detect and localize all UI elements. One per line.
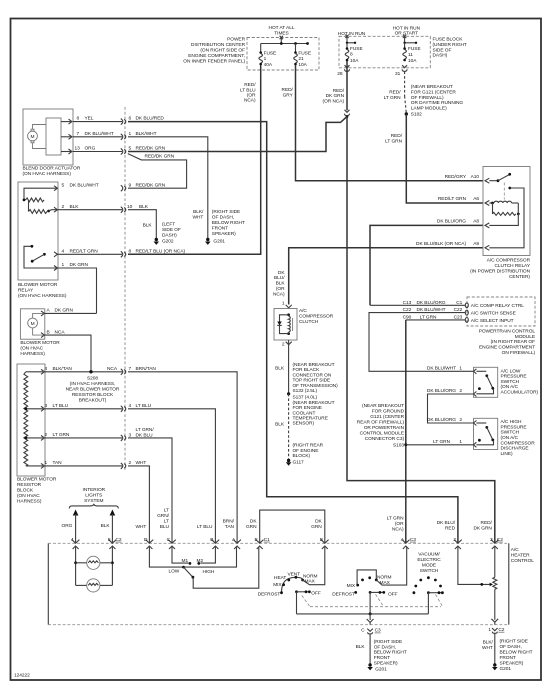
svg-text:LAMP MODULE): LAMP MODULE) — [411, 106, 447, 112]
svg-text:1: 1 — [264, 56, 267, 62]
svg-text:NORM: NORM — [377, 575, 392, 581]
svg-text:LT BLU: LT BLU — [240, 87, 256, 93]
svg-text:ORG: ORG — [62, 523, 73, 529]
svg-text:CLUTCH: CLUTCH — [299, 319, 319, 325]
svg-text:LT: LT — [164, 519, 169, 525]
svg-text:M: M — [31, 321, 35, 327]
svg-text:SWITCH: SWITCH — [420, 568, 439, 574]
svg-text:RED/: RED/ — [333, 88, 345, 94]
svg-text:LT GRN/: LT GRN/ — [136, 427, 155, 433]
svg-text:3: 3 — [129, 432, 132, 438]
svg-text:BLK: BLK — [356, 644, 366, 650]
svg-text:BELOW RIGHT: BELOW RIGHT — [212, 220, 245, 226]
svg-text:BLK: BLK — [275, 365, 285, 371]
svg-text:2: 2 — [459, 417, 462, 423]
svg-text:DEFROST: DEFROST — [332, 592, 355, 598]
svg-text:BLK/: BLK/ — [483, 640, 494, 646]
svg-text:COOLANT: COOLANT — [293, 410, 316, 416]
svg-text:TIMES: TIMES — [274, 30, 288, 36]
svg-text:DEFROST: DEFROST — [258, 592, 281, 598]
svg-text:BLOCK: BLOCK — [17, 488, 34, 494]
svg-text:9: 9 — [129, 182, 132, 188]
svg-text:2: 2 — [282, 341, 285, 347]
svg-text:ACCUMULATOR): ACCUMULATOR) — [501, 389, 539, 395]
svg-text:A/C HIGH: A/C HIGH — [501, 419, 523, 425]
svg-text:RED/LT GRN: RED/LT GRN — [70, 248, 99, 254]
svg-text:OF ENGINE: OF ENGINE — [293, 448, 319, 454]
svg-text:5: 5 — [129, 146, 132, 152]
svg-text:DK: DK — [250, 519, 257, 525]
svg-text:1: 1 — [488, 627, 491, 633]
svg-text:RED/: RED/ — [282, 87, 294, 93]
svg-text:FRONT: FRONT — [374, 655, 390, 661]
svg-text:DK GRN: DK GRN — [70, 262, 89, 268]
svg-text:BLOWER MOTOR: BLOWER MOTOR — [18, 282, 58, 288]
svg-text:OR START: OR START — [395, 30, 419, 36]
svg-text:LT BLU: LT BLU — [197, 524, 213, 530]
svg-text:MAX: MAX — [380, 580, 391, 586]
svg-text:1: 1 — [129, 131, 132, 137]
svg-text:SWITCH: SWITCH — [501, 430, 520, 436]
svg-text:WHT: WHT — [482, 645, 493, 651]
svg-text:(ON A/C: (ON A/C — [501, 384, 519, 390]
svg-text:5: 5 — [62, 182, 65, 188]
svg-text:4: 4 — [129, 403, 132, 409]
svg-text:TAN: TAN — [53, 460, 63, 466]
svg-text:ELECTRIC: ELECTRIC — [417, 557, 441, 563]
svg-text:NCA): NCA) — [244, 98, 256, 104]
svg-text:LT BLU: LT BLU — [136, 403, 152, 409]
svg-text:(NEAR BREAKOUT: (NEAR BREAKOUT — [411, 84, 453, 90]
svg-text:GRN: GRN — [246, 524, 257, 530]
svg-text:OF FIREWALL): OF FIREWALL) — [411, 95, 444, 101]
svg-text:ON FIREWALL): ON FIREWALL) — [502, 350, 536, 356]
svg-text:LINE): LINE) — [501, 451, 513, 457]
svg-text:DK BLU/WHT: DK BLU/WHT — [427, 366, 456, 372]
svg-text:BRN/: BRN/ — [223, 519, 235, 525]
svg-text:DK BLU/ORG: DK BLU/ORG — [427, 388, 456, 394]
svg-text:BLK: BLK — [275, 422, 285, 428]
svg-text:3: 3 — [45, 403, 48, 409]
svg-text:C90: C90 — [403, 314, 412, 320]
svg-text:G117: G117 — [293, 459, 305, 465]
svg-text:LIGHTS: LIGHTS — [85, 493, 102, 499]
svg-text:BELOW RIGHT: BELOW RIGHT — [500, 650, 533, 656]
svg-text:1: 1 — [45, 460, 48, 466]
svg-text:40A: 40A — [264, 62, 273, 68]
svg-text:DK GRN: DK GRN — [326, 93, 345, 99]
svg-text:COMPRESSOR: COMPRESSOR — [501, 440, 536, 446]
svg-text:BLK: BLK — [143, 222, 153, 228]
svg-text:11: 11 — [408, 52, 413, 58]
svg-text:(ON HVAC HARNESS): (ON HVAC HARNESS) — [18, 293, 67, 299]
svg-text:LOW: LOW — [169, 568, 180, 574]
svg-text:DK BLU/: DK BLU/ — [437, 520, 456, 526]
svg-text:CONTROL: CONTROL — [511, 558, 534, 564]
svg-text:1: 1 — [62, 262, 65, 268]
svg-text:FRONT: FRONT — [212, 226, 228, 232]
svg-text:1: 1 — [459, 439, 462, 445]
svg-text:SIDE OF: SIDE OF — [162, 227, 181, 233]
svg-text:BLK: BLK — [70, 204, 80, 210]
svg-text:OF DASH,: OF DASH, — [212, 215, 234, 221]
svg-text:G201: G201 — [500, 666, 512, 672]
svg-text:(RIGHT SIDE: (RIGHT SIDE — [374, 639, 402, 645]
svg-text:OF TRANSMISSION): OF TRANSMISSION) — [293, 383, 339, 389]
svg-text:DASH): DASH) — [433, 53, 448, 59]
svg-text:OF DASH,: OF DASH, — [500, 644, 522, 650]
svg-text:GRN/: GRN/ — [157, 513, 170, 519]
svg-text:BREAKOUT): BREAKOUT) — [79, 398, 107, 404]
svg-text:10A: 10A — [298, 62, 307, 68]
svg-text:A9: A9 — [473, 241, 479, 247]
svg-text:(OR NCA): (OR NCA) — [323, 99, 345, 105]
svg-text:DK: DK — [315, 519, 322, 525]
svg-text:DK BLU/ORG: DK BLU/ORG — [437, 219, 466, 225]
svg-text:RED/DK GRN: RED/DK GRN — [136, 182, 166, 188]
svg-text:SIDE OF: SIDE OF — [433, 47, 452, 53]
svg-text:FUSE BLOCK: FUSE BLOCK — [433, 37, 464, 43]
svg-text:A/C SELECT INPUT: A/C SELECT INPUT — [471, 318, 514, 324]
svg-text:S102: S102 — [411, 112, 422, 118]
svg-text:VENT: VENT — [288, 571, 301, 577]
svg-text:G121 (CENTER: G121 (CENTER — [370, 414, 404, 420]
svg-text:WHT: WHT — [136, 524, 147, 530]
svg-text:CONTROL MODULE: CONTROL MODULE — [360, 431, 404, 437]
svg-text:C23: C23 — [454, 314, 463, 320]
svg-text:SPEAKER): SPEAKER) — [374, 661, 398, 667]
svg-text:S208: S208 — [87, 376, 98, 382]
svg-text:10: 10 — [127, 204, 133, 210]
svg-text:LT GRN: LT GRN — [384, 95, 401, 101]
svg-text:SPEAKER): SPEAKER) — [212, 231, 236, 237]
svg-text:BLOWER MOTOR: BLOWER MOTOR — [17, 477, 57, 483]
svg-text:COMPRESSOR: COMPRESSOR — [299, 313, 334, 319]
svg-text:A/C: A/C — [299, 308, 307, 314]
svg-text:RED/DK GRN: RED/DK GRN — [136, 146, 166, 152]
svg-text:BLU: BLU — [160, 524, 170, 530]
svg-text:MIX: MIX — [347, 583, 356, 589]
svg-text:FOR GROUND: FOR GROUND — [372, 409, 405, 415]
svg-text:(OR: (OR — [276, 286, 285, 292]
svg-text:(ON HVAC: (ON HVAC — [17, 493, 40, 499]
svg-text:BLK/: BLK/ — [193, 209, 204, 215]
svg-text:OFF: OFF — [311, 591, 321, 597]
svg-text:BLK/WHT: BLK/WHT — [136, 131, 157, 137]
svg-text:(IN HVAC HARNESS,: (IN HVAC HARNESS, — [70, 381, 116, 387]
svg-text:13: 13 — [75, 146, 81, 152]
svg-text:(NEAR BREAKOUT: (NEAR BREAKOUT — [293, 362, 335, 368]
svg-text:S103: S103 — [393, 443, 404, 449]
svg-text:FRONT: FRONT — [500, 655, 516, 661]
svg-text:FUSE: FUSE — [298, 51, 311, 57]
svg-text:8: 8 — [350, 52, 353, 58]
svg-text:C22: C22 — [403, 307, 412, 313]
svg-text:MIX: MIX — [273, 582, 282, 588]
svg-text:HARNESS): HARNESS) — [17, 499, 42, 505]
svg-text:C2: C2 — [498, 627, 504, 633]
svg-text:ENGINE COMPARTMENT: ENGINE COMPARTMENT — [479, 345, 535, 351]
svg-text:RED/LT GRN: RED/LT GRN — [438, 196, 467, 202]
svg-text:(ON RIGHT SIDE OF: (ON RIGHT SIDE OF — [200, 48, 245, 54]
svg-text:NEAR BLOWER MOTOR: NEAR BLOWER MOTOR — [66, 387, 120, 393]
svg-text:DISTRIBUTION CENTER: DISTRIBUTION CENTER — [191, 42, 246, 48]
svg-text:HEAT: HEAT — [274, 575, 286, 581]
svg-text:SENSOR): SENSOR) — [293, 421, 315, 427]
svg-text:(RIGHT SIDE: (RIGHT SIDE — [500, 639, 528, 645]
svg-text:(ON HVAC HARNESS): (ON HVAC HARNESS) — [23, 171, 72, 177]
svg-text:A/C: A/C — [511, 547, 519, 553]
svg-text:LT BLU: LT BLU — [53, 403, 69, 409]
svg-text:DK: DK — [278, 270, 285, 276]
svg-text:C3: C3 — [410, 537, 416, 543]
svg-text:DK BLU/RED: DK BLU/RED — [136, 116, 165, 122]
svg-text:(NEAR BREAKOUT: (NEAR BREAKOUT — [293, 400, 335, 406]
svg-text:HEATER: HEATER — [511, 553, 530, 559]
svg-text:(NEAR BREAKOUT: (NEAR BREAKOUT — [362, 403, 404, 409]
svg-text:A10: A10 — [471, 174, 480, 180]
svg-text:FOR G121 (CENTER: FOR G121 (CENTER — [411, 89, 457, 95]
svg-text:RED/LT BLU (OR NCA): RED/LT BLU (OR NCA) — [136, 248, 186, 254]
svg-text:LT GRN: LT GRN — [387, 516, 404, 522]
svg-text:(RIGHT REAR: (RIGHT REAR — [293, 443, 324, 449]
svg-text:HOT IN RUN: HOT IN RUN — [338, 31, 366, 37]
svg-text:A/C COMPRESSOR: A/C COMPRESSOR — [487, 258, 531, 264]
svg-text:RED/: RED/ — [391, 133, 403, 139]
svg-text:FUSE: FUSE — [264, 51, 277, 57]
svg-text:1: 1 — [459, 366, 462, 372]
svg-text:LT: LT — [164, 508, 169, 514]
svg-text:ON INNER FENDER PANEL): ON INNER FENDER PANEL) — [183, 59, 245, 65]
svg-text:DK BLU/WHT: DK BLU/WHT — [416, 307, 445, 313]
svg-text:C13: C13 — [403, 300, 412, 306]
svg-text:GRY: GRY — [283, 92, 294, 98]
svg-text:DK GRN: DK GRN — [55, 308, 74, 314]
svg-text:FOR ENGINE: FOR ENGINE — [293, 405, 322, 411]
svg-text:HIGH: HIGH — [203, 569, 215, 575]
svg-text:BLK: BLK — [139, 204, 149, 210]
svg-text:(OR: (OR — [247, 93, 256, 99]
svg-text:C3: C3 — [375, 628, 381, 634]
svg-text:LT GRN: LT GRN — [385, 139, 402, 145]
svg-text:MODULE: MODULE — [515, 334, 535, 340]
svg-text:DASH): DASH) — [162, 232, 177, 238]
svg-text:OF DASH,: OF DASH, — [374, 644, 396, 650]
svg-text:CENTER): CENTER) — [509, 274, 530, 280]
svg-text:LT GRN: LT GRN — [420, 314, 437, 320]
svg-text:WHT: WHT — [136, 460, 147, 466]
svg-text:(LEFT: (LEFT — [162, 221, 175, 227]
svg-text:2: 2 — [62, 204, 65, 210]
svg-text:(IN POWER DISTRIBUTION: (IN POWER DISTRIBUTION — [470, 269, 531, 275]
svg-text:CONNECTOR ON: CONNECTOR ON — [293, 372, 332, 378]
svg-text:BLOCK): BLOCK) — [293, 453, 311, 459]
svg-text:WHT: WHT — [193, 215, 204, 221]
svg-text:BLK: BLK — [101, 523, 111, 529]
svg-text:GRN: GRN — [311, 524, 322, 530]
svg-text:NCA: NCA — [107, 366, 118, 372]
svg-text:MAX: MAX — [305, 579, 316, 585]
svg-text:RESISTOR: RESISTOR — [17, 482, 42, 488]
svg-text:8: 8 — [129, 248, 132, 254]
svg-text:RED/: RED/ — [389, 90, 401, 96]
svg-text:TAN: TAN — [225, 524, 235, 530]
svg-text:2: 2 — [459, 388, 462, 394]
svg-text:(RIGHT SIDE: (RIGHT SIDE — [212, 209, 240, 215]
svg-text:BLU/: BLU/ — [274, 275, 285, 281]
svg-text:POWERTRAIN CONTROL: POWERTRAIN CONTROL — [479, 328, 536, 334]
svg-text:(IN RIGHT REAR OF: (IN RIGHT REAR OF — [491, 339, 535, 345]
svg-text:C2: C2 — [116, 537, 122, 543]
svg-text:HARNESS): HARNESS) — [20, 351, 45, 357]
svg-text:TOP RIGHT SIDE: TOP RIGHT SIDE — [293, 378, 331, 384]
svg-text:PRESSURE: PRESSURE — [501, 424, 527, 430]
svg-text:4: 4 — [62, 248, 65, 254]
svg-text:7: 7 — [129, 366, 132, 372]
svg-text:G201: G201 — [375, 666, 387, 672]
svg-text:10A: 10A — [408, 58, 417, 64]
svg-text:DK BLU/ORG: DK BLU/ORG — [416, 300, 445, 306]
svg-text:OR POWERTRAIN: OR POWERTRAIN — [364, 425, 405, 431]
svg-text:A8: A8 — [473, 219, 479, 225]
svg-text:M: M — [31, 134, 35, 140]
svg-text:1: 1 — [282, 300, 285, 306]
svg-text:INTERIOR: INTERIOR — [83, 487, 106, 493]
svg-text:G201: G201 — [213, 239, 225, 245]
svg-text:2: 2 — [45, 432, 48, 438]
svg-text:DK BLU/WHT: DK BLU/WHT — [70, 182, 99, 188]
svg-text:BRN/TAN: BRN/TAN — [136, 366, 157, 372]
svg-text:OFF: OFF — [388, 591, 398, 597]
svg-text:CONNECTOR C3): CONNECTOR C3) — [365, 436, 405, 442]
svg-text:124222: 124222 — [14, 673, 30, 679]
svg-text:BLK/TAN: BLK/TAN — [53, 366, 73, 372]
svg-text:REAR OF FIREWALL): REAR OF FIREWALL) — [357, 420, 405, 426]
svg-text:FUSE: FUSE — [350, 46, 363, 52]
svg-text:RELAY: RELAY — [18, 287, 34, 293]
svg-text:RED: RED — [445, 525, 456, 531]
svg-text:TEMPERATURE: TEMPERATURE — [293, 416, 328, 422]
svg-text:BLK: BLK — [276, 280, 286, 286]
svg-text:RED/DK GRN: RED/DK GRN — [145, 154, 175, 160]
svg-text:C: C — [361, 628, 365, 634]
svg-text:28: 28 — [337, 71, 343, 77]
svg-text:NCA: NCA — [55, 329, 66, 335]
svg-text:21: 21 — [298, 56, 304, 62]
svg-text:(OR: (OR — [395, 521, 404, 527]
svg-text:A/C LOW: A/C LOW — [501, 369, 521, 375]
svg-text:M1: M1 — [182, 558, 189, 564]
svg-text:BELOW RIGHT: BELOW RIGHT — [374, 650, 407, 656]
svg-text:FOR BLACK: FOR BLACK — [293, 367, 321, 373]
svg-text:A/C SWITCH SENSE: A/C SWITCH SENSE — [471, 311, 516, 317]
svg-text:DK GRN: DK GRN — [473, 525, 492, 531]
svg-text:C22: C22 — [454, 307, 463, 313]
svg-text:RED/: RED/ — [244, 82, 256, 88]
svg-text:M2: M2 — [197, 558, 204, 564]
svg-text:POWER: POWER — [227, 37, 245, 43]
svg-text:DK BLU/WHT: DK BLU/WHT — [85, 131, 114, 137]
svg-text:MODE: MODE — [422, 563, 436, 569]
svg-text:7: 7 — [77, 131, 80, 137]
svg-text:S132 (2.5L): S132 (2.5L) — [293, 388, 318, 394]
svg-text:ENGINE COMPARTMENT,: ENGINE COMPARTMENT, — [188, 53, 245, 59]
svg-text:C1: C1 — [264, 537, 270, 543]
svg-text:C1: C1 — [456, 300, 462, 306]
svg-text:OR DAYTIME RUNNING: OR DAYTIME RUNNING — [411, 100, 464, 106]
svg-text:NCA): NCA) — [273, 291, 285, 297]
svg-text:8: 8 — [77, 116, 80, 122]
svg-text:G202: G202 — [162, 239, 174, 245]
svg-text:DK BLU/BLK (OR NCA): DK BLU/BLK (OR NCA) — [416, 241, 466, 247]
svg-text:BLOWER MOTOR: BLOWER MOTOR — [20, 340, 60, 346]
svg-text:(ON HVAC: (ON HVAC — [20, 346, 43, 352]
svg-text:NORM: NORM — [303, 573, 318, 579]
svg-text:6: 6 — [129, 116, 132, 122]
svg-text:31: 31 — [395, 71, 401, 77]
svg-text:2: 2 — [129, 460, 132, 466]
svg-text:10A: 10A — [350, 58, 359, 64]
svg-text:CLUTCH RELAY: CLUTCH RELAY — [494, 263, 530, 269]
svg-text:ORG: ORG — [85, 146, 96, 152]
svg-text:RESISTOR BLOCK: RESISTOR BLOCK — [72, 392, 114, 398]
svg-text:SYSTEM: SYSTEM — [84, 498, 103, 504]
svg-text:PRESSURE: PRESSURE — [501, 374, 527, 380]
svg-text:DK BLU/ORG: DK BLU/ORG — [427, 417, 456, 423]
svg-text:DK BLU: DK BLU — [136, 432, 154, 438]
svg-text:YEL: YEL — [85, 116, 94, 122]
svg-text:(ON A/C: (ON A/C — [501, 435, 519, 441]
svg-text:RED/GRY: RED/GRY — [445, 174, 467, 180]
svg-text:LT GRN: LT GRN — [433, 439, 450, 445]
svg-text:LT GRN: LT GRN — [53, 432, 70, 438]
svg-text:FUSE: FUSE — [408, 46, 421, 52]
svg-text:A/C COMP RELAY CTRL: A/C COMP RELAY CTRL — [471, 303, 525, 309]
svg-text:SWITCH: SWITCH — [501, 379, 520, 385]
svg-text:A6: A6 — [473, 196, 479, 202]
svg-text:DISCHARGE: DISCHARGE — [501, 446, 529, 452]
svg-text:NCA): NCA) — [392, 527, 404, 533]
svg-text:(UNDER RIGHT: (UNDER RIGHT — [433, 42, 467, 48]
svg-text:BLEND DOOR ACTUATOR: BLEND DOOR ACTUATOR — [23, 166, 81, 172]
svg-text:S137 (4.0L): S137 (4.0L) — [293, 395, 318, 401]
svg-text:B: B — [47, 329, 50, 335]
svg-text:VACUUM/: VACUUM/ — [418, 552, 440, 558]
svg-text:HOT AT ALL: HOT AT ALL — [269, 25, 295, 31]
svg-text:RED/: RED/ — [481, 520, 493, 526]
svg-text:SPEAKER): SPEAKER) — [500, 660, 524, 666]
svg-text:4: 4 — [45, 366, 48, 372]
